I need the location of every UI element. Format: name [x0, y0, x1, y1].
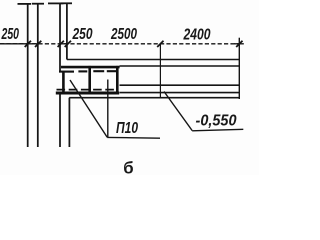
svg-text:250: 250 [72, 26, 93, 43]
svg-text:2400: 2400 [183, 26, 211, 43]
svg-text:б: б [123, 158, 133, 175]
svg-text:-0,550: -0,550 [196, 113, 237, 130]
svg-text:250: 250 [1, 26, 19, 43]
svg-text:П10: П10 [116, 120, 138, 137]
svg-text:2500: 2500 [110, 26, 137, 43]
